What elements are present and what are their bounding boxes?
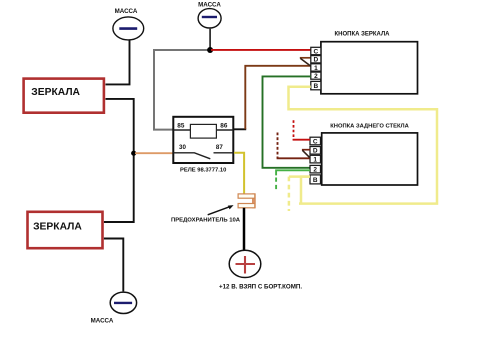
svg-text:30: 30 [179,144,186,151]
relay coil [190,124,216,138]
wire relay 86 stub black [233,128,246,130]
wire red node A to button S1 pin C [211,49,311,51]
S1 pin 1 [311,64,321,72]
S1 pin B [311,81,321,90]
S2 pin D [310,147,321,155]
battery +12V terminal [229,250,261,277]
label fuse ПРЕДОХРАНИТЕЛЬ 10А with arrow [171,205,241,223]
ground G2 МАССА top-center [198,2,221,29]
svg-text:КНОПКА ЗАДНЕГО СТЕКЛА: КНОПКА ЗАДНЕГО СТЕКЛА [330,123,409,129]
svg-text:1: 1 [313,157,317,164]
svg-text:МАССА: МАССА [198,2,221,9]
S2 pin 2 [310,165,321,173]
wire green S1 pin2 to S2 pin2 [263,76,311,167]
wire M2 to ground G3 [104,239,123,292]
svg-text:86: 86 [220,122,228,129]
svg-text:B: B [314,83,319,90]
svg-text:B: B [313,177,318,184]
node A junction at G2 [207,47,213,53]
ground G1 МАССА top-left [113,8,144,40]
svg-text:ЗЕРКАЛА: ЗЕРКАЛА [33,221,82,232]
ground G3 МАССА bottom [91,292,137,324]
fuse F1 [238,194,255,208]
svg-text:D: D [313,148,318,155]
node B junction on mirror bus [131,151,136,156]
svg-text:C: C [313,138,318,145]
S2 pin C [310,137,321,145]
relay switch 30-87 [173,153,210,159]
wire yellow dashed stub at S2 pin B [289,177,310,211]
svg-text:85: 85 [177,122,185,129]
S2 pin 1 [310,155,321,163]
wire mirror bus M1 to M2 [104,99,134,222]
wire G1 to mirror M1 [106,40,130,85]
svg-text:ЗЕРКАЛА: ЗЕРКАЛА [31,87,80,98]
wire brown dashed stub to S2 pins 1 and D [277,133,311,159]
button S2 КНОПКА ЗАДНЕГО СТЕКЛА [322,123,418,185]
wire yellow S1 pinB to S2 pinB long route [289,87,438,204]
svg-text:КНОПКА ЗЕРКАЛА: КНОПКА ЗЕРКАЛА [334,31,390,37]
wire orange node B to relay pin 30 [135,152,173,154]
svg-text:87: 87 [216,144,223,151]
svg-text:РЕЛЕ 98.3777.10: РЕЛЕ 98.3777.10 [180,168,226,174]
svg-text:МАССА: МАССА [115,8,138,15]
svg-text:C: C [314,48,319,55]
mirror block M1 ЗЕРКАЛА [24,79,104,113]
S1 pin C [311,47,321,55]
S2 pin B [310,175,321,184]
relay K1 РЕЛЕ 98.3777.10 [173,117,234,174]
wire yellow riser into S2 pinB [301,177,310,204]
svg-text:2: 2 [313,167,317,174]
mirror block M2 ЗЕРКАЛА [28,212,103,248]
svg-text:МАССА: МАССА [91,318,114,325]
button S1 КНОПКА ЗЕРКАЛА [321,31,418,94]
wire gray G2-node to relay pin 85 [154,50,210,130]
svg-text:+12 В. ВЗЯП С БОРТ.КОМП.: +12 В. ВЗЯП С БОРТ.КОМП. [219,284,302,291]
S1 pin 2 [311,72,321,80]
svg-text:1: 1 [314,65,318,72]
wire fuse F1 to battery [243,208,246,251]
wire green bright stub to S2 pin 2 [276,170,310,190]
wire red dashed stub to S2 pin C [293,120,310,139]
wire yellow relay 87 to fuse F1 [234,153,244,194]
svg-text:ПРЕДОХРАНИТЕЛЬ 10А: ПРЕДОХРАНИТЕЛЬ 10А [171,217,241,223]
svg-text:2: 2 [314,73,318,80]
wire G2 stem [209,28,211,50]
svg-text:D: D [314,57,319,64]
wire brown relay 86 to S1 pins 1 and D [245,58,310,130]
S1 pin D [311,56,321,64]
